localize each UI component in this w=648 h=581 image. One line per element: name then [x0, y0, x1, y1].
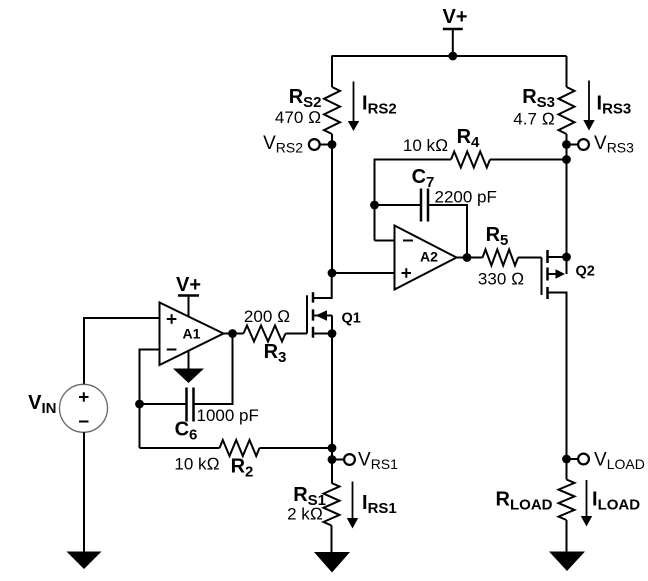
svg-text:V+: V+ [442, 6, 467, 28]
V+ supply symbol at A1 [176, 274, 201, 317]
svg-text:1000 pF: 1000 pF [197, 406, 259, 425]
svg-text:10 kΩ: 10 kΩ [403, 136, 448, 155]
node A2 output [463, 253, 472, 262]
ground RS1 [314, 552, 350, 573]
svg-text:4.7 Ω: 4.7 Ω [513, 110, 554, 129]
svg-text:10 kΩ: 10 kΩ [174, 455, 219, 474]
resistor RS2 [324, 87, 340, 134]
node V+ rail junction [448, 52, 457, 61]
ground RLOAD [549, 552, 585, 572]
wire VRS1 to RS1 [331, 460, 333, 484]
op-amp A2 [395, 226, 457, 290]
svg-text:V+: V+ [176, 274, 201, 296]
svg-text:330 Ω: 330 Ω [478, 270, 524, 289]
resistor R3 [233, 307, 308, 366]
resistor RS3 [513, 86, 574, 134]
svg-text:200 Ω: 200 Ω [244, 307, 290, 326]
resistor R5 [467, 224, 542, 289]
wire A1 inverting input [140, 350, 160, 449]
node C7 left junction [370, 201, 379, 210]
current arrow IRS3 [583, 81, 631, 131]
transistor Q1 [307, 273, 361, 338]
svg-text:2 kΩ: 2 kΩ [287, 505, 323, 524]
node VRS3 [562, 133, 634, 156]
op-amp A1 [160, 303, 224, 366]
node VRS1 [328, 450, 399, 473]
node Q2 source [562, 253, 571, 262]
wire A2 output [457, 257, 468, 259]
wire RLOAD to ground [566, 520, 568, 552]
node VLOAD [562, 450, 645, 473]
node A1 output [228, 329, 237, 338]
capacitor C6 [140, 388, 259, 444]
wire feedback down [194, 334, 233, 405]
node Q1 source junction [328, 329, 337, 338]
current arrow IRS2 [348, 82, 397, 132]
wire to A2 + input [332, 272, 395, 274]
transistor Q2 [542, 250, 595, 459]
resistor R2 [140, 440, 333, 481]
capacitor C7 [375, 166, 497, 258]
resistor R4 [375, 126, 567, 241]
V+ supply symbol [442, 6, 467, 56]
wire A1 output [224, 333, 233, 335]
svg-text:A2: A2 [420, 249, 438, 265]
ground arrow at A1 negative supply [173, 351, 204, 384]
svg-text:470 Ω: 470 Ω [275, 108, 321, 127]
current arrow IRS1 [347, 482, 397, 529]
wire top rail [332, 55, 567, 57]
node R4 junction [562, 155, 571, 164]
resistor RS1 [287, 483, 339, 526]
wire VLOAD to RLOAD [566, 459, 568, 480]
wire RS1 to ground [331, 526, 333, 553]
wire right rail top [566, 56, 568, 87]
wire RS3 down to Q2 [566, 134, 568, 257]
svg-text:A1: A1 [183, 326, 201, 342]
wire A2 inverting input [375, 240, 395, 242]
wire RS2 to Q1 [331, 134, 333, 273]
node C6 left junction [135, 400, 144, 409]
current arrow ILOAD [581, 480, 640, 527]
resistor RLOAD [496, 480, 575, 521]
svg-text:2200 pF: 2200 pF [435, 188, 497, 207]
svg-text:Q1: Q1 [342, 311, 361, 327]
svg-text:Q2: Q2 [576, 264, 595, 280]
wire left rail top [331, 56, 334, 87]
source VIN [28, 318, 159, 552]
node R2 right junction [328, 444, 337, 453]
wire Q1 source down [331, 334, 333, 460]
node Q1 drain / A2+ branch [328, 269, 337, 278]
node VRS2 [263, 133, 336, 156]
ground VIN [67, 552, 102, 570]
